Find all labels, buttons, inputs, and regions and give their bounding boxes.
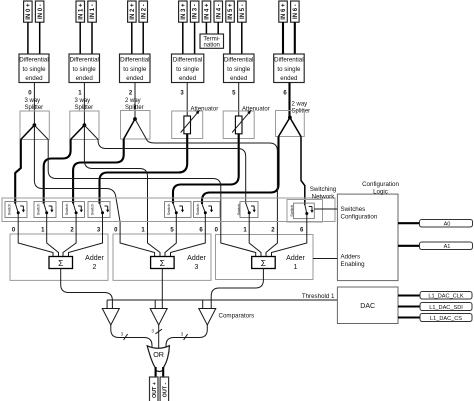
svg-text:ended: ended bbox=[76, 75, 94, 82]
bus slash 3 bbox=[181, 332, 188, 341]
wire adder2 to comparator1 bbox=[61, 269, 113, 309]
net A0 bbox=[420, 220, 473, 228]
svg-text:Switch: Switch bbox=[64, 204, 69, 216]
svg-text:Configuration: Configuration bbox=[341, 214, 378, 221]
wire IN3+ bbox=[182, 22, 184, 54]
svg-text:Switch: Switch bbox=[236, 204, 241, 216]
svg-text:Differential: Differential bbox=[173, 57, 202, 64]
switch strip bbox=[2, 198, 335, 222]
svg-text:IN 5 -: IN 5 - bbox=[240, 4, 246, 19]
switch S5 bbox=[165, 202, 192, 222]
wire comparator3 to OR bbox=[166, 325, 207, 347]
switch S1 bbox=[5, 202, 27, 222]
input IN2+ bbox=[128, 1, 137, 22]
svg-text:Enabling: Enabling bbox=[341, 261, 366, 268]
wire SP3 right to adder1 input 2 bbox=[146, 139, 277, 222]
wire U0 to splitter1 bbox=[33, 83, 35, 126]
differential to single ended U1 bbox=[69, 54, 100, 83]
wire SP2 center to adder3 input 1 bbox=[84, 140, 147, 223]
svg-text:Adder: Adder bbox=[286, 255, 305, 262]
switching network label bbox=[310, 186, 337, 201]
differential to single ended U3 bbox=[172, 54, 204, 83]
switching network highlight box bbox=[287, 200, 323, 223]
wire IN0- bbox=[39, 22, 41, 54]
input IN0- bbox=[35, 1, 44, 22]
svg-text:Switch: Switch bbox=[90, 204, 95, 216]
svg-text:IN 0 +: IN 0 + bbox=[26, 3, 32, 20]
svg-text:Configuration: Configuration bbox=[362, 181, 399, 188]
comparator 1 bbox=[102, 309, 119, 326]
wire SP1 left to switch S1 bold bbox=[15, 140, 21, 204]
svg-text:2: 2 bbox=[93, 264, 97, 271]
svg-text:IN 2 -: IN 2 - bbox=[141, 4, 147, 19]
differential to single ended U2 bbox=[120, 54, 151, 83]
svg-text:ended: ended bbox=[126, 75, 144, 82]
wire U2 to splitter3 bbox=[134, 83, 136, 120]
svg-text:2 way: 2 way bbox=[125, 98, 141, 104]
svg-text:OR: OR bbox=[153, 350, 164, 359]
svg-text:Σ: Σ bbox=[160, 258, 165, 268]
wire IN4+ to termination bbox=[205, 22, 207, 34]
svg-text:Differential: Differential bbox=[19, 57, 48, 64]
svg-text:nation: nation bbox=[204, 43, 220, 49]
adder 1 funnel wires bbox=[221, 222, 307, 257]
svg-text:ended: ended bbox=[179, 75, 197, 82]
output OUT+ bbox=[150, 377, 159, 401]
wire SP2 left to switch S2 bold bbox=[44, 140, 71, 204]
wire IN4- to termination bbox=[217, 22, 219, 34]
svg-text:Adder: Adder bbox=[187, 255, 206, 262]
comparator 3 bbox=[199, 309, 216, 326]
OR gate bbox=[147, 346, 169, 372]
wire comparator2 to OR bbox=[158, 325, 160, 349]
wire IN1- bbox=[91, 22, 93, 54]
net L1_DAC_CLK bbox=[420, 292, 472, 300]
wire adder1 to comparator3 bbox=[211, 269, 263, 309]
configuration logic label bbox=[362, 181, 399, 196]
termination T1 bbox=[200, 34, 224, 49]
input IN4+ bbox=[202, 1, 211, 22]
configuration logic box bbox=[337, 194, 398, 281]
wire config to A1 bbox=[398, 245, 420, 247]
svg-text:Σ: Σ bbox=[261, 258, 266, 268]
svg-text:Splitter: Splitter bbox=[75, 105, 94, 111]
adder 3 box bbox=[113, 234, 211, 280]
svg-text:IN 5 +: IN 5 + bbox=[228, 3, 234, 20]
svg-text:IN 3 +: IN 3 + bbox=[181, 3, 187, 20]
wire SP3 left to switch S3 bold bbox=[73, 139, 124, 204]
wire SP4 left to switch S6 bold bbox=[202, 137, 279, 205]
svg-text:Splitter: Splitter bbox=[25, 105, 44, 111]
2 way splitter SP3 bbox=[121, 98, 151, 139]
svg-text:Network: Network bbox=[312, 194, 336, 201]
svg-text:to single: to single bbox=[22, 66, 46, 73]
wire OR to OUT+ bbox=[155, 367, 157, 378]
svg-text:Differential: Differential bbox=[120, 57, 149, 64]
svg-text:IN 1 -: IN 1 - bbox=[90, 4, 96, 19]
switch S2 bbox=[34, 202, 56, 222]
wire AT2 to switch S5 bold bbox=[173, 134, 239, 204]
net A1 bbox=[420, 242, 473, 250]
wire comparator1 to OR bbox=[111, 325, 152, 347]
svg-text:IN 6 +: IN 6 + bbox=[281, 3, 287, 20]
svg-text:to single: to single bbox=[73, 66, 97, 73]
wire SP1 center to adder3 input 0 bbox=[34, 140, 120, 223]
svg-text:Splitter: Splitter bbox=[292, 109, 311, 115]
wire DAC to L1_DAC_SDI bbox=[398, 305, 420, 307]
wire U5 to splitter4 bold bbox=[288, 83, 290, 118]
svg-text:to single: to single bbox=[227, 66, 251, 73]
differential to single ended U4 bbox=[224, 54, 255, 83]
node labels adder1 inputs bbox=[215, 228, 304, 234]
wire IN5+ bbox=[229, 22, 231, 54]
input IN3+ bbox=[179, 1, 188, 22]
2 way splitter SP4 bbox=[276, 102, 311, 137]
switch S3 bbox=[63, 202, 85, 222]
wire adder1 to config logic bbox=[313, 258, 337, 260]
svg-text:A0: A0 bbox=[444, 222, 451, 228]
threshold 1 net bbox=[107, 293, 337, 309]
wire switch S8 to config logic bbox=[314, 208, 337, 210]
adder 1 box bbox=[216, 235, 314, 280]
svg-text:Comparators: Comparators bbox=[219, 313, 255, 320]
svg-text:Termi-: Termi- bbox=[203, 36, 220, 42]
attenuator AT1 bbox=[172, 107, 218, 139]
svg-text:to single: to single bbox=[123, 66, 147, 73]
svg-text:IN 0 -: IN 0 - bbox=[38, 4, 44, 19]
wire IN6- bold bbox=[294, 22, 296, 54]
svg-text:ended: ended bbox=[25, 75, 43, 82]
wire IN2- bbox=[142, 22, 144, 54]
wire DAC to L1_DAC_CLK bbox=[398, 294, 420, 296]
wire AT1 to switch S4 bold bbox=[100, 134, 188, 204]
wire IN0+ bbox=[27, 22, 29, 54]
svg-text:Switch: Switch bbox=[36, 204, 41, 216]
node labels adder2 inputs bbox=[12, 228, 101, 234]
svg-text:IN 1 +: IN 1 + bbox=[78, 3, 84, 20]
svg-text:Adders: Adders bbox=[341, 254, 361, 261]
svg-text:3 way: 3 way bbox=[25, 98, 41, 104]
adder 1 sigma bbox=[252, 257, 276, 269]
net L1_DAC_CS bbox=[420, 314, 472, 322]
input IN5+ bbox=[226, 1, 235, 22]
svg-text:OUT -: OUT - bbox=[162, 382, 168, 397]
wire DAC to L1_DAC_CS bbox=[398, 316, 420, 318]
output OUT- bbox=[160, 377, 169, 401]
svg-text:1: 1 bbox=[294, 264, 298, 271]
wire config to A0 bbox=[398, 222, 420, 224]
svg-text:Differential: Differential bbox=[224, 57, 253, 64]
wire U4 to attenuator2 bbox=[238, 83, 240, 117]
svg-text:Threshold 1: Threshold 1 bbox=[302, 293, 335, 300]
input IN3- bbox=[190, 1, 199, 22]
svg-text:Attenuator: Attenuator bbox=[242, 107, 270, 113]
differential to single ended U5 bbox=[274, 54, 305, 83]
input IN6- bbox=[291, 1, 300, 22]
svg-text:Adder: Adder bbox=[85, 255, 104, 262]
svg-text:IN 2 +: IN 2 + bbox=[130, 3, 136, 20]
3 way splitter SP2 bbox=[70, 98, 99, 140]
svg-text:Differential: Differential bbox=[274, 57, 303, 64]
adder 3 funnel wires bbox=[120, 222, 205, 257]
adder 2 funnel wires bbox=[18, 222, 102, 257]
DAC box bbox=[337, 287, 398, 324]
node labels adder3 inputs bbox=[114, 228, 203, 234]
input IN6+ bbox=[279, 1, 288, 22]
svg-text:A1: A1 bbox=[444, 244, 451, 250]
switch S7 bbox=[236, 202, 258, 222]
comparator 2 bbox=[150, 309, 167, 326]
wire OR to OUT- bbox=[162, 367, 164, 378]
svg-text:OUT +: OUT + bbox=[152, 382, 158, 398]
input IN1- bbox=[88, 1, 97, 22]
svg-text:to single: to single bbox=[277, 66, 301, 73]
wire U1 to splitter2 bbox=[83, 83, 85, 126]
wire SP1 right to adder1 input 0 bbox=[48, 140, 221, 223]
differential to single ended U0 bbox=[19, 54, 49, 83]
3 way splitter SP1 bbox=[20, 98, 49, 140]
wire IN5- bbox=[241, 22, 243, 54]
input IN4- bbox=[214, 1, 223, 22]
svg-text:DAC: DAC bbox=[360, 303, 375, 310]
svg-text:L1_DAC_CS: L1_DAC_CS bbox=[430, 316, 462, 322]
net L1_DAC_SDI bbox=[420, 303, 472, 311]
input IN0+ bbox=[24, 1, 32, 22]
svg-text:L1_DAC_SDI: L1_DAC_SDI bbox=[429, 305, 463, 311]
svg-text:Switch: Switch bbox=[195, 204, 200, 216]
svg-text:IN 4 +: IN 4 + bbox=[205, 3, 211, 20]
svg-text:Attenuator: Attenuator bbox=[191, 107, 219, 113]
svg-text:to single: to single bbox=[176, 66, 200, 73]
input IN2- bbox=[139, 1, 148, 22]
adder 2 box bbox=[10, 234, 108, 280]
svg-text:2 way: 2 way bbox=[292, 102, 308, 108]
input IN5- bbox=[238, 1, 247, 22]
wire SP4 right to switch S8 bbox=[301, 137, 305, 206]
svg-text:L1_DAC_CLK: L1_DAC_CLK bbox=[428, 294, 463, 300]
svg-text:Differential: Differential bbox=[69, 57, 98, 64]
svg-text:ended: ended bbox=[230, 75, 248, 82]
svg-text:IN 3 -: IN 3 - bbox=[193, 4, 199, 19]
attenuator AT2 bbox=[223, 107, 269, 139]
svg-text:Switch: Switch bbox=[166, 204, 171, 216]
wire SP2 right to switch S7 bbox=[98, 140, 246, 204]
adder 2 sigma bbox=[49, 257, 73, 269]
wire IN2+ bbox=[131, 22, 133, 54]
adder 3 sigma bbox=[151, 257, 175, 269]
svg-text:Switch: Switch bbox=[289, 205, 294, 217]
switch S6 bbox=[194, 202, 221, 222]
switch S4 bbox=[88, 202, 110, 222]
svg-text:Σ: Σ bbox=[58, 258, 63, 268]
svg-text:3: 3 bbox=[195, 264, 199, 271]
wire IN6+ bold bbox=[282, 22, 284, 54]
wire U3 to attenuator1 bbox=[186, 83, 188, 117]
svg-text:ended: ended bbox=[280, 75, 298, 82]
wire IN1+ bbox=[79, 22, 81, 54]
svg-text:IN 6 -: IN 6 - bbox=[293, 4, 299, 19]
svg-text:Switches: Switches bbox=[341, 206, 366, 213]
bus slash 1 bbox=[121, 332, 128, 341]
switch S8 bbox=[289, 203, 314, 222]
input IN1+ bbox=[76, 1, 85, 22]
wire IN3- bbox=[194, 22, 196, 54]
wire adder3 to comparator2 bbox=[161, 269, 163, 309]
bus slash 2 bbox=[152, 329, 163, 334]
svg-text:Switch: Switch bbox=[7, 204, 12, 216]
svg-text:Switching: Switching bbox=[310, 186, 337, 193]
svg-text:3 way: 3 way bbox=[75, 98, 91, 104]
svg-text:IN 4 -: IN 4 - bbox=[216, 4, 222, 19]
